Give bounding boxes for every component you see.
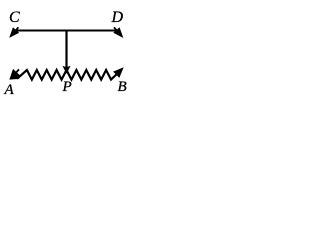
svg-text:C: C: [9, 9, 20, 26]
svg-text:D: D: [111, 9, 124, 26]
svg-text:P: P: [62, 79, 72, 95]
svg-text:A: A: [4, 82, 15, 98]
svg-text:B: B: [118, 79, 127, 95]
